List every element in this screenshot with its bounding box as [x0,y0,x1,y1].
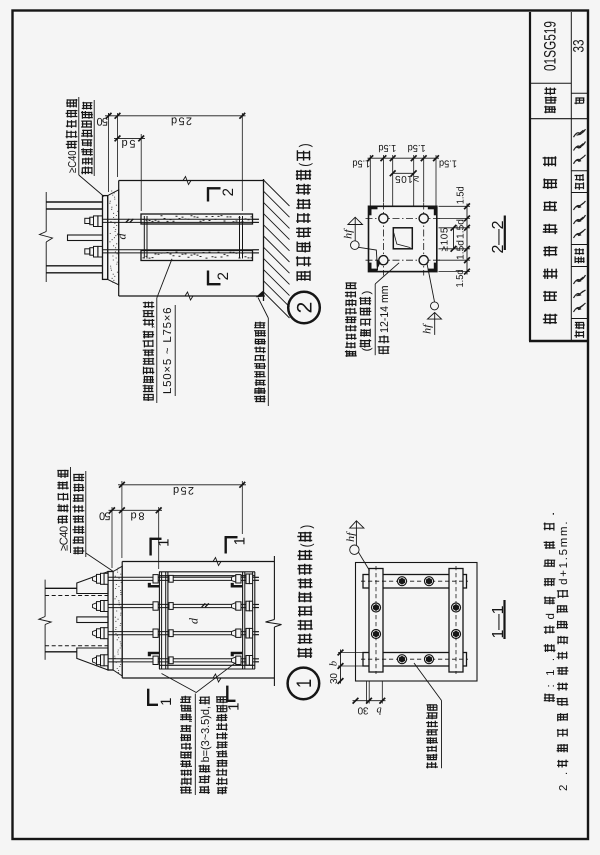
anchor bolt B1 fig2 (upper) [103,218,259,220]
break line right edge fig1 with zigzag [273,556,275,620]
column K2 H-section steel column (fig 2) [45,192,47,232]
svg-text:(: ( [361,347,373,351]
svg-text:): ) [299,525,315,529]
svg-text:≥105: ≥105 [440,227,451,251]
svg-text:1.5d: 1.5d [455,240,466,260]
svg-text:1: 1 [226,703,243,711]
title text column foot anchor bracket [543,314,558,324]
bolt tails fig1 [255,576,259,578]
weld symbol hf at plan 2-2 bottom right [427,263,435,302]
svg-text:d: d [115,233,129,240]
plan 2-2 top extension lines [369,155,371,206]
weld symbol hf at plan 2-2 left [354,217,356,241]
plan 2-2 corner angle marks [369,206,378,209]
svg-text:b=(3~3.5)d,: b=(3~3.5)d, [200,706,212,762]
rule after line1 fig1 label [194,694,196,796]
notes line 1 [544,694,555,703]
svg-text:8d: 8d [131,510,145,522]
svg-text:b: b [329,661,340,666]
rule after line2 angle label fig2 [174,305,176,396]
label diaphragm plate fig2 line3 [378,346,390,354]
section marks 1 top (fig1) [149,538,151,556]
svg-text:d: d [545,613,557,619]
label bracket angle steel fig1 line2 [199,786,210,794]
plan 2-2 right dim >=105 [453,228,455,249]
rule after line1 angle label fig2 [156,298,158,403]
svg-text:1: 1 [158,698,175,706]
angle leg hooks fig1 (4) [148,583,160,588]
title block outer lines [529,12,531,341]
grout layer C40 fig1 (stippled trapezoid) [113,566,122,676]
label bracket angle steel fig1 line3 [217,787,227,795]
caption 2-2 underline [504,216,506,251]
label diaphragm plate rule fig2 [374,284,376,355]
svg-text:≥C40: ≥C40 [59,526,71,551]
column K1 flange solid lines fig1 [45,587,77,589]
figure number circle 1 [288,668,320,700]
page label cell [574,97,584,104]
section mark 2 bottom (fig2) [207,271,209,286]
base plate fig1 [108,572,113,671]
extension lines fig2 dims [108,113,110,192]
clamp nuts on bracket rails fig1 [153,575,158,583]
svg-text:,: , [144,325,156,329]
grout layer C40 fig2 (stippled trapezoid) [108,190,119,285]
plan 2-2 top dim >=105 [393,172,414,174]
plan 1-1 bottom dims 30 and b [353,700,386,702]
leader to angle label plan 1-1 [414,663,442,701]
base plate fig2 [103,196,108,280]
bracket angle steel right pair fig2 [239,216,241,259]
title block column divider [570,12,572,341]
svg-text:1.5d: 1.5d [455,270,466,288]
leader diaphragm label fig2 [375,263,399,284]
leader fork to bracket angles fig1 [162,663,236,693]
leader angle label fig2 [157,259,172,298]
title block cell line atlas-number [530,82,571,84]
figure number circle 2 [288,292,320,324]
nut and washer stack fig2 bolt B1 [85,218,90,223]
plan 1-1 vertical angle rail right [449,569,463,673]
signature liu [574,129,586,164]
plan 1-1 rail centerlines dash-dot [375,566,377,674]
svg-text:1.5d: 1.5d [378,142,396,153]
svg-text:1.5d: 1.5d [455,186,466,204]
svg-text:): ) [297,143,313,147]
svg-text:1.5d: 1.5d [439,158,457,169]
bolt diameter d ticks fig2 [126,219,130,223]
svg-text:d: d [187,617,201,624]
svg-text:d+1.5mm.: d+1.5mm. [558,522,570,585]
dimension 50 and 8d fig1 [109,509,163,511]
title block cell line page [571,92,588,94]
svg-text:30: 30 [329,673,340,684]
anchor bolt B2 fig2 (lower) [103,249,259,251]
svg-text:.: . [545,512,557,517]
svg-text:1.5d: 1.5d [408,142,426,153]
plan 1-1 vertical angle rail left [369,569,383,673]
designer cells labels [575,182,584,190]
ground cut line with hatching fig2 [263,179,265,301]
signature liang [574,201,586,238]
svg-text:5d: 5d [122,137,136,149]
svg-text:2: 2 [220,188,237,196]
anchor bolts fig1 (4 rows) [96,576,259,578]
nut and washer stacks at base plate fig1 [93,576,97,582]
plan 2-2 top dimension line [368,157,440,159]
label C40 grout fig1 line2 [73,547,84,555]
svg-text:12-14 mm: 12-14 mm [379,286,391,333]
label bracket angle steel fig1 line1 [180,786,192,794]
plan 2-2 hole diagonal mark [394,233,411,248]
svg-text:≥105: ≥105 [395,173,419,184]
plan 1-1 left dims b and 30 [340,650,342,684]
weld leader plan 2-2 left to bottom edge [359,247,378,270]
section marks 1 bottom (fig1) [147,689,149,706]
underline elevation label fig2 [267,318,269,406]
caption 1-1 underline [503,600,505,639]
svg-text:L50×5 ~ L75×6: L50×5 ~ L75×6 [162,308,174,395]
column K1 web stub fig1 [77,617,108,623]
title block signature cell lines [571,170,588,172]
svg-text:01SG519: 01SG519 [542,21,560,71]
svg-text:≥C40: ≥C40 [67,150,79,173]
dimension 25d fig1 [118,484,246,486]
foundation concrete block fig1 [122,561,274,563]
bracket frame fig1 - left angle pair [158,572,160,669]
caption fig1 title text [297,648,312,658]
svg-text:33: 33 [571,40,588,53]
column K1 break line fig1 [44,580,46,617]
svg-text:b: b [377,705,382,716]
leader elevation label fig2 with arrow [258,298,268,319]
caption fig2 title text [296,271,310,282]
svg-text:(: ( [299,543,315,547]
plan 1-1 horizontal angle rail top [363,575,467,589]
label angle steel plan 1-1 [426,762,438,769]
svg-text:1: 1 [293,679,316,688]
svg-text:1.5d: 1.5d [352,158,370,169]
svg-text:25d: 25d [171,115,192,127]
plan 2-2 right dimension line [466,204,468,275]
nut and washer stack fig2 bolt B2 [85,249,90,254]
signature shen [574,275,586,312]
svg-text:25d: 25d [173,484,194,496]
plan 1-1 horizontal angle rail bottom [363,653,467,667]
plan 2-2 centerlines dash-dot [382,203,384,276]
bracket horizontal plate band lower fig2 (stippled) [141,251,253,261]
underlines C40 label fig2 [78,97,80,175]
plan 2-2 inner hole square [393,228,412,249]
plan 2-2 right extension lines [439,205,471,207]
extension lines fig1 dims [111,507,113,568]
bracket frame fig1 - right angle pair [242,572,244,669]
dimension 50 grout thickness fig2 [108,113,110,116]
column K2 web stub plate [68,235,103,241]
weld bead mark near bottom-left bolt [377,260,380,269]
svg-text:2: 2 [215,272,232,280]
bracket frame fig1 - bottom rail [159,664,255,666]
gusset plate bottom fig1 [77,648,108,670]
dimension 5d fig2 [114,137,145,139]
label C40 grout fig2 line2 [81,167,92,175]
atlas number label cell [544,106,556,114]
svg-text:50: 50 [97,115,109,127]
svg-text:): ) [361,290,373,294]
plan 1-1 bolts with hex nuts [398,577,407,586]
column K1 flange hidden dashed lines fig1 [45,595,108,597]
plan 1-1 outer boundary square [356,563,478,682]
underline angle label plan 1-1 [441,701,443,769]
label diaphragm plate fig2 line1 [345,350,357,357]
bracket angle steel left pair fig2 [143,216,145,259]
svg-text:1.5d: 1.5d [455,219,466,239]
svg-text:1: 1 [232,537,249,545]
plan 2-2 outer diaphragm plate square [369,206,437,271]
leader C40 label fig2 [79,175,104,197]
weld symbol hf at plan 1-1 top-left [355,521,357,545]
svg-text:2: 2 [294,302,317,314]
bolt diameter ticks fig1 row2 [202,603,206,607]
svg-text:50: 50 [99,510,111,522]
foundation concrete block fig2 [119,180,264,182]
bracket frame fig1 - top rail [159,571,255,573]
svg-text:(: ( [297,163,313,167]
plan 2-2 bolt hole circles [379,214,388,223]
svg-text:30: 30 [357,705,368,716]
bracket horizontal plate band upper fig2 (stippled) [141,214,253,224]
svg-text:1: 1 [156,539,173,547]
section mark 2 top (fig2) [207,187,209,201]
column K2 flange lines [46,201,102,203]
bolt tail stubs fig2 [253,218,259,220]
leader C40 label fig1 [86,553,113,571]
underlines C40 label fig1 [70,467,72,553]
weld leader plan 1-1 [358,552,369,571]
label bracket elevation mark fig2 (she zhi biao gao) [254,395,265,402]
label bracket angle steel fig2 line1 [143,394,154,401]
title block cell line full width [530,118,588,120]
gusset plate top fig1 [77,572,108,594]
